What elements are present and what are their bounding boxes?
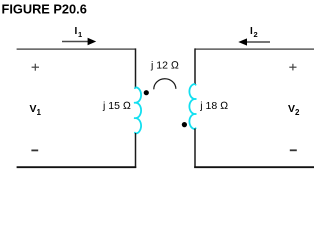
terminal minus left bbox=[31, 149, 38, 151]
wire: right loop left vertical lower bbox=[194, 129, 196, 169]
inductor L2 j18 coil bbox=[189, 84, 196, 129]
voltage label V2 bbox=[288, 103, 300, 117]
wire: right loop left vertical upper bbox=[194, 48, 196, 84]
wire: left loop right vertical upper bbox=[135, 48, 137, 87]
svg-text:1: 1 bbox=[37, 108, 42, 117]
svg-text:j 18 Ω: j 18 Ω bbox=[199, 100, 228, 112]
current label I2 bbox=[250, 26, 258, 39]
current arrow I2 bbox=[238, 38, 270, 45]
terminal minus right bbox=[290, 149, 297, 151]
svg-text:FIGURE P20.6: FIGURE P20.6 bbox=[2, 2, 87, 17]
wire: right loop bottom bbox=[194, 166, 314, 168]
voltage label V1 bbox=[30, 103, 42, 117]
polarity dot left bbox=[144, 90, 149, 95]
svg-text:j 15 Ω: j 15 Ω bbox=[102, 100, 131, 112]
polarity dot right bbox=[182, 122, 187, 127]
svg-text:V: V bbox=[30, 103, 37, 115]
current arrow I1 bbox=[62, 38, 96, 46]
wire: left loop bottom bbox=[17, 166, 137, 168]
terminal plus left bbox=[32, 64, 39, 71]
svg-text:j 12 Ω: j 12 Ω bbox=[150, 60, 179, 72]
terminal plus right bbox=[289, 64, 296, 71]
wire: right loop top bbox=[195, 48, 314, 50]
svg-text:V: V bbox=[288, 103, 295, 115]
current label I1 bbox=[75, 26, 83, 39]
svg-text:1: 1 bbox=[78, 30, 82, 39]
svg-text:2: 2 bbox=[295, 108, 300, 117]
mutual inductance arc j12 bbox=[154, 79, 176, 90]
wire: left loop right vertical lower bbox=[135, 133, 137, 168]
inductor L1 j15 coil bbox=[134, 87, 141, 133]
svg-text:2: 2 bbox=[254, 30, 258, 39]
wire: left loop top bbox=[17, 48, 136, 50]
